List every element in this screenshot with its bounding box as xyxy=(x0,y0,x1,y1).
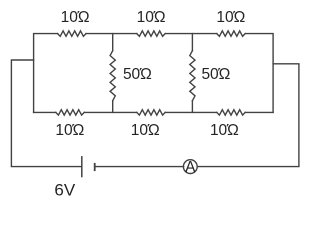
wire bottom between R4 and R5 xyxy=(84,111,137,113)
svg-text:10Ώ: 10Ώ xyxy=(61,9,90,26)
resistor R3 10Ω top-right xyxy=(217,31,245,36)
svg-text:10Ώ: 10Ώ xyxy=(210,122,239,139)
resistor R8 50Ω right vertical xyxy=(190,51,195,101)
resistor R4 10Ω bottom-left xyxy=(56,110,84,115)
wire bottom between R5 and R6 xyxy=(165,111,217,113)
svg-text:10Ώ: 10Ώ xyxy=(55,122,84,139)
svg-text:10Ώ: 10Ώ xyxy=(137,9,166,26)
wire from battery to ammeter xyxy=(95,166,184,168)
wire from ammeter, outer-right side and right connector xyxy=(197,64,299,167)
battery B1 6V negative plate xyxy=(94,163,96,171)
wire top between R2 and R3 xyxy=(165,33,217,35)
resistor R7 50Ω left vertical xyxy=(110,51,115,101)
wire lower stub of first middle branch xyxy=(112,101,114,113)
wire left connector, outer-left side and run to battery xyxy=(11,60,81,167)
wire inner-left side and top-left segment xyxy=(34,34,58,113)
resistor R1 10Ω top-left xyxy=(58,31,86,36)
svg-text:10Ώ: 10Ώ xyxy=(216,9,245,26)
resistor R2 10Ω top-middle xyxy=(137,31,165,36)
svg-text:6V: 6V xyxy=(54,181,75,198)
resistor R5 10Ω bottom-middle xyxy=(137,110,165,115)
wire bottom-left segment xyxy=(34,111,56,113)
wire lower stub of second middle branch xyxy=(191,101,193,113)
svg-text:50Ώ: 50Ώ xyxy=(201,66,230,83)
wire upper stub of second middle branch xyxy=(191,34,193,51)
wire top-right segment and inner-right side xyxy=(245,34,273,113)
svg-text:50Ώ: 50Ώ xyxy=(123,66,152,83)
wire upper stub of first middle branch xyxy=(112,34,114,51)
wire top between R1 and R2 xyxy=(86,33,137,35)
ammeter A1 circle xyxy=(183,160,197,174)
wire bottom-right segment xyxy=(245,111,273,113)
resistor R6 10Ω bottom-right xyxy=(217,110,245,115)
battery B1 6V positive plate xyxy=(81,156,83,177)
svg-text:A: A xyxy=(185,159,196,176)
svg-text:10Ώ: 10Ώ xyxy=(131,122,160,139)
